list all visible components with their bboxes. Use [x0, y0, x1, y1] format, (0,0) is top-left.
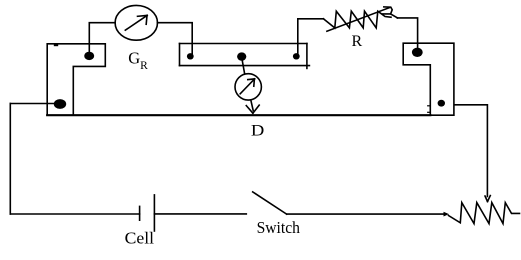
jockey detector body [235, 74, 261, 100]
wire rheostat R right end down to right block [397, 18, 417, 49]
svg-text:GR: GR [128, 49, 148, 73]
battery cell: short plate [139, 206, 141, 220]
arrowhead at wire end before rheostat [444, 212, 450, 217]
nub on left block top edge [54, 44, 58, 46]
wire scribble to right lead [391, 14, 398, 18]
wire bridge baseline [47, 114, 430, 116]
terminal dot (middle block, center) [237, 52, 246, 60]
terminal dot (right block, lower) [438, 100, 445, 107]
svg-text:R: R [352, 33, 363, 50]
wire jockey to bridge wire [251, 100, 253, 111]
rheostat RH2 (bottom right) zigzag [449, 203, 520, 224]
svg-text:Switch: Switch [257, 218, 301, 237]
arrowhead pointing down into rheostat [485, 196, 490, 202]
terminal dot (left block, top) [84, 52, 94, 60]
terminal dot (middle block, left) [187, 53, 194, 59]
right terminal block [403, 43, 454, 115]
middle terminal block [180, 44, 310, 69]
svg-text:Cell: Cell [125, 229, 155, 248]
wire galvanometer left to left block [89, 23, 115, 53]
terminal dot (middle block, right) [293, 53, 300, 59]
wire switch to bottom rheostat [287, 213, 446, 215]
terminal dot (left block, bottom-left) [54, 99, 66, 109]
rheostat R slider arrow shaft [327, 8, 389, 31]
switch S1 blade [253, 192, 287, 214]
wire far-left vertical [9, 104, 11, 215]
galvanometer G1 needle [125, 15, 147, 30]
rheostat R zigzag [323, 11, 391, 28]
wire right block to rheostat slider [455, 105, 488, 197]
wire left lead into left block [10, 103, 56, 105]
tick marks on right block inner edge [428, 106, 431, 113]
wire bottom left to cell [10, 213, 139, 215]
wire middle block right terminal up to rheostat R [298, 19, 324, 54]
wire cell to switch [154, 213, 246, 215]
galvanometer G1 body [115, 5, 157, 40]
battery cell: long plate [153, 195, 155, 231]
terminal dot (right block, top) [412, 48, 423, 57]
rheostat R slider arrowhead scribble [383, 7, 393, 14]
svg-text:D: D [251, 123, 264, 140]
wire center dot to jockey [242, 59, 245, 74]
left terminal block [47, 44, 105, 115]
arrowhead jockey contact [246, 105, 259, 113]
wire galvanometer right to middle block [157, 23, 192, 54]
jockey detector needle [240, 79, 254, 94]
